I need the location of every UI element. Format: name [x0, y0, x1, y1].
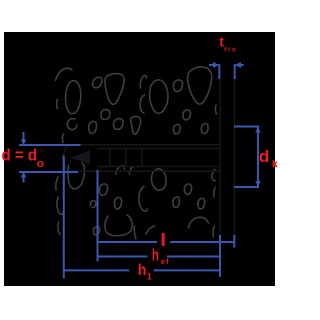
aggregate A18	[215, 105, 216, 114]
aggregate B2	[68, 163, 85, 189]
d_k dim line	[257, 127, 259, 188]
aggregate A14	[173, 80, 182, 92]
aggregate B15	[139, 187, 148, 212]
aggregate A2	[66, 81, 81, 114]
t_fix left arrow tail	[209, 64, 214, 66]
anchor tip cone	[70, 151, 90, 165]
fixture right face	[234, 79, 236, 235]
d bottom line	[19, 171, 78, 173]
extension line B	[97, 170, 99, 262]
sleeve slots	[110, 149, 142, 167]
aggregate B7	[90, 201, 95, 208]
aggregate A3	[57, 100, 58, 109]
h_1 dim line right part	[154, 269, 221, 271]
d_k bottom arrowhead	[255, 181, 261, 187]
aggregate A8	[67, 119, 77, 130]
aggregate B13	[134, 226, 136, 239]
aggregate A13	[150, 80, 168, 114]
h_ef dim line left part	[98, 256, 148, 258]
aggregate A10	[113, 119, 123, 130]
svg-text:h: h	[138, 262, 147, 279]
aggregate A12	[140, 75, 146, 88]
aggregate B1	[56, 177, 58, 190]
aggregate B11	[105, 215, 132, 236]
svg-text:d: d	[259, 147, 269, 166]
t_fix right extension	[234, 64, 236, 79]
extension line D	[233, 235, 235, 248]
svg-text:k: k	[272, 159, 278, 169]
aggregate A4	[93, 77, 102, 88]
aggregate B17	[173, 197, 180, 208]
drawing background band	[4, 32, 275, 286]
svg-text:l: l	[161, 231, 166, 249]
aggregate B21	[212, 170, 216, 181]
t_fix right arrow tail	[240, 64, 244, 66]
aggregate B20	[189, 217, 209, 228]
aggregate B18	[198, 198, 205, 209]
aggregate A15	[188, 67, 212, 104]
d_k top connector	[234, 126, 259, 128]
l dim line left part	[98, 241, 158, 243]
concrete surface line	[219, 79, 221, 235]
anchor and fixture artwork (very dark)	[63, 79, 235, 235]
aggregate B22	[214, 187, 216, 197]
aggregate A17	[183, 110, 191, 120]
anchor shaft top	[97, 148, 219, 150]
d top line	[19, 144, 81, 146]
d_k top arrowhead	[255, 127, 261, 133]
d top arrow tail	[23, 132, 25, 140]
d bottom arrow tail	[23, 177, 25, 183]
hole bottom taper	[63, 145, 68, 171]
aggregate A16	[140, 95, 145, 114]
aggregate B8	[114, 197, 121, 209]
concrete aggregate texture	[56, 67, 217, 239]
svg-text:1: 1	[147, 272, 152, 282]
svg-text:h: h	[152, 247, 159, 265]
aggregate B16	[184, 184, 191, 195]
aggregate B10	[130, 167, 135, 175]
aggregate B19	[146, 226, 155, 234]
aggregate B3	[62, 134, 63, 143]
aggregate B5	[58, 222, 60, 235]
d bottom arrowhead	[21, 172, 27, 178]
aggregate B12	[93, 226, 99, 235]
svg-text:d = d: d = d	[2, 147, 38, 165]
aggregate A5	[105, 74, 124, 105]
aggregate B23	[213, 226, 215, 237]
anchor shaft bottom	[97, 166, 219, 168]
svg-text:ef: ef	[161, 257, 170, 266]
aggregate A1	[56, 68, 73, 80]
svg-text:fix: fix	[224, 47, 237, 54]
l dim line right part	[170, 241, 234, 243]
d top arrowhead	[21, 140, 27, 146]
dimension lines	[19, 64, 259, 278]
aggregate B9	[116, 166, 125, 174]
extension line A	[63, 156, 65, 279]
t_fix left extension	[218, 64, 220, 79]
svg-text:0: 0	[37, 159, 45, 169]
aggregate A11	[131, 116, 141, 134]
hole top edge	[67, 144, 219, 146]
aggregate A19	[201, 123, 208, 133]
h_ef dim line right part	[167, 256, 220, 258]
aggregate A6	[101, 109, 110, 119]
aggregate B14	[151, 169, 166, 190]
aggregate A9	[89, 121, 97, 133]
h_1 dim line left part	[64, 269, 129, 271]
aggregate A20	[173, 124, 180, 134]
aggregate B4	[57, 197, 64, 214]
t_fix left arrowhead	[213, 62, 219, 68]
aggregate B6	[99, 184, 107, 196]
t_fix right arrowhead	[235, 62, 241, 68]
extension line C	[219, 235, 221, 277]
hole bottom edge	[67, 170, 219, 172]
d_k bottom connector	[234, 186, 259, 188]
